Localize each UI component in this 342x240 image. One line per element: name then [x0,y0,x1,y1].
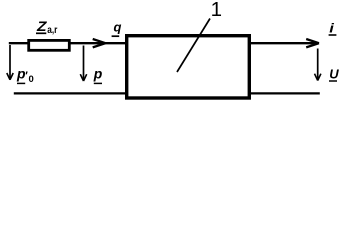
svg-text:q: q [114,20,122,35]
svg-text:a,r: a,r [47,25,57,36]
svg-text:U: U [329,67,339,82]
svg-text:1: 1 [211,0,222,21]
svg-text:p: p [93,66,103,82]
svg-text:i: i [329,21,334,36]
svg-text:0: 0 [29,74,34,85]
svg-text:Z: Z [36,18,47,34]
